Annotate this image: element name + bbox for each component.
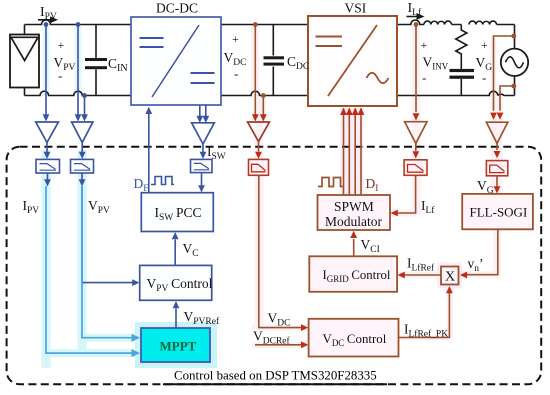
svg-text:-: - bbox=[234, 66, 238, 81]
svg-text:VSI: VSI bbox=[345, 0, 367, 15]
svg-text:X: X bbox=[445, 270, 455, 285]
svg-text:+: + bbox=[58, 38, 65, 52]
svg-text:DC-DC: DC-DC bbox=[156, 1, 198, 16]
svg-text:+: + bbox=[232, 32, 239, 46]
svg-text:Modulator: Modulator bbox=[325, 214, 382, 229]
svg-text:+: + bbox=[481, 38, 488, 52]
svg-text:-: - bbox=[58, 68, 62, 83]
svg-text:Control based on DSP TMS320F28: Control based on DSP TMS320F28335 bbox=[174, 369, 377, 383]
svg-text:-: - bbox=[482, 70, 486, 85]
svg-text:SPWM: SPWM bbox=[334, 199, 374, 214]
svg-text:FLL-SOGI: FLL-SOGI bbox=[470, 205, 528, 220]
svg-text:-: - bbox=[422, 70, 426, 85]
svg-text:+: + bbox=[421, 38, 428, 52]
svg-text:MPPT: MPPT bbox=[160, 339, 197, 354]
